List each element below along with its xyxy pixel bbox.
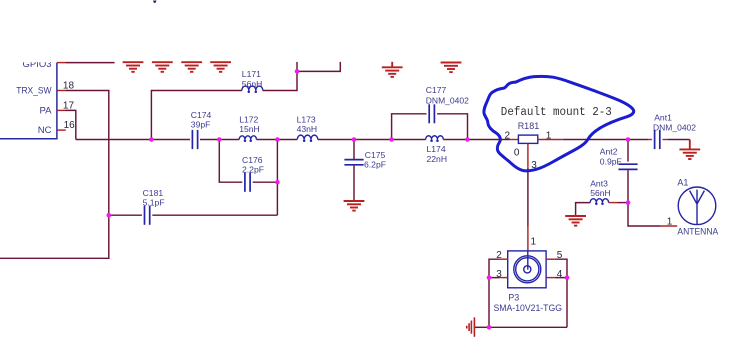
pin stub P3 pin5 [546, 258, 555, 260]
svg-text:39pF: 39pF [191, 120, 211, 130]
capacitor Ant1 (DNM) [655, 130, 660, 149]
wire bus L173 to L174 [318, 139, 426, 141]
svg-text:56nH: 56nH [242, 79, 263, 89]
wire C177 loop right [437, 114, 467, 140]
wire ground rail bottom [489, 326, 567, 328]
junction at L171 branch corner [295, 69, 300, 74]
svg-text:C177: C177 [426, 85, 447, 95]
svg-text:DNM_0402: DNM_0402 [653, 123, 696, 133]
pin stub antenna pin 1 [660, 225, 677, 227]
junction bus / L171 branch [149, 137, 154, 142]
wire P3 right loop [555, 259, 567, 277]
junction bus / C176 right [275, 137, 280, 142]
IC pin name GPIO3 (top-clipped) [22, 59, 51, 70]
pin stub R181 pin2 [510, 139, 519, 141]
pin stub NC (16, unconnected) [57, 129, 66, 131]
pin stub P3 pin3 [499, 277, 508, 279]
wire R181 pin3 to P3 pin1 [527, 168, 529, 226]
svg-text:1: 1 [667, 217, 673, 228]
svg-text:Ant3: Ant3 [590, 178, 608, 188]
junction bus / C175 [352, 137, 357, 142]
junction Ant2 / Ant3 / feed [626, 200, 631, 205]
wire C181 right segment [152, 214, 277, 216]
wire TRX_SW net to off-page left [0, 91, 109, 259]
svg-text:SMA-10V21-TGG: SMA-10V21-TGG [494, 303, 563, 313]
wire P3 left loop [489, 259, 499, 277]
wire vertical through C176/C181 junctions [276, 140, 278, 216]
ground symbol 2 (floating) [152, 62, 173, 72]
ground below C175 [344, 201, 365, 211]
inductor L174 [426, 136, 444, 140]
wire C176 left leg [219, 140, 242, 183]
wire L171 to corner up [263, 71, 297, 90]
connector P3 body [508, 251, 546, 288]
ground below Ant3 [565, 216, 586, 226]
wire C175 upper leg [353, 140, 355, 160]
junction C176 / C181 riser [275, 180, 280, 185]
svg-text:PA: PA [40, 106, 53, 117]
wire P3 right down to ground rail [566, 278, 568, 328]
svg-text:56nH: 56nH [590, 188, 611, 198]
svg-text:L173: L173 [297, 114, 316, 124]
wire C176 right leg [253, 181, 278, 183]
svg-text:1: 1 [531, 236, 537, 247]
junction P3 pin3 loop [487, 275, 492, 280]
pin stub Ant1 left [648, 139, 652, 141]
svg-text:C181: C181 [143, 188, 164, 198]
junction bus / C177 left [389, 137, 394, 142]
wire bus L174 to R181 [443, 139, 509, 141]
pin stub Ant1 right [663, 139, 669, 141]
pin stub GPIO3 [57, 62, 66, 64]
wire P3 left down to ground rail [488, 278, 490, 328]
svg-text:Default mount 2-3: Default mount 2-3 [501, 106, 612, 119]
ground symbol floating (right of C177) [441, 63, 462, 73]
wire bus L172 to L173 [257, 139, 298, 141]
wire Ant3 to junction [618, 202, 629, 204]
junction ground rail [487, 325, 492, 330]
svg-text:ANTENNA: ANTENNA [677, 227, 718, 238]
wire bus C174 to L172 [200, 139, 239, 141]
wire PA pin to main bus [66, 110, 76, 139]
pin stub Ant3 right [609, 202, 618, 204]
ground right of Ant1 [679, 140, 700, 160]
pin stub PA (17) [57, 109, 66, 111]
inductor L172 [239, 136, 256, 140]
svg-text:6.2pF: 6.2pF [364, 160, 386, 170]
wire bus junction up to L171 row [151, 91, 241, 140]
ground left of P3 rail (rotated) [467, 317, 475, 336]
capacitor Ant2 [618, 164, 637, 169]
wire R181 pin1 to antenna junction [563, 139, 628, 141]
svg-text:NC: NC [38, 125, 52, 136]
antenna A1 symbol [678, 187, 716, 225]
wire GPIO3 net (dangling) [66, 62, 115, 64]
svg-text:R181: R181 [518, 121, 540, 131]
pin stub R181 pin3 down [527, 143, 529, 167]
svg-text:C174: C174 [191, 110, 212, 120]
wire to left ground [474, 326, 489, 328]
svg-text:2.2pF: 2.2pF [242, 164, 264, 174]
pin stub R181 pin1 [538, 139, 563, 141]
ground symbol 3 (floating) [181, 62, 202, 72]
wire junction to Ant1 [628, 139, 648, 141]
junction bus / C176 left [217, 137, 222, 142]
junction P3 pin4 loop [565, 275, 570, 280]
wire C181 left segment from TRX_SW line [109, 214, 142, 216]
wire right with dangling stub [297, 62, 340, 72]
svg-text:0: 0 [514, 148, 520, 159]
resistor R181 body [518, 135, 537, 143]
svg-text:DNM_0402: DNM_0402 [426, 95, 469, 105]
pin stub TRX_SW (18) [57, 90, 66, 92]
capacitor C176 [245, 173, 250, 192]
junction TRX_SW / C181 [107, 213, 112, 218]
pin stub P3 pin4 [546, 277, 555, 279]
svg-text:L171: L171 [242, 69, 261, 79]
junction bus / C177 right [465, 137, 470, 142]
svg-text:2: 2 [505, 130, 511, 141]
svg-text:4: 4 [557, 269, 563, 280]
capacitor C174 [192, 130, 197, 149]
svg-text:TRX_SW: TRX_SW [16, 86, 51, 97]
IC U1 outline (right edge and bottom edge, clipped at image left) [0, 63, 57, 139]
svg-text:22nH: 22nH [427, 154, 448, 164]
svg-text:L172: L172 [239, 114, 258, 124]
pin stub P3 pin1 up [527, 226, 529, 251]
svg-text:0.9pF: 0.9pF [600, 156, 622, 166]
svg-text:3: 3 [496, 269, 502, 280]
svg-text:C176: C176 [242, 155, 263, 165]
svg-text:P3: P3 [508, 293, 519, 303]
svg-text:5.1pF: 5.1pF [143, 198, 165, 208]
svg-text:Ant2: Ant2 [600, 147, 618, 157]
svg-text:Ant1: Ant1 [654, 112, 672, 122]
svg-text:15nH: 15nH [239, 124, 260, 134]
ground symbol 4 (floating) [210, 62, 231, 72]
wire C175 lower leg [353, 166, 355, 201]
wire antenna feed [628, 203, 660, 226]
svg-text:A1: A1 [677, 178, 688, 188]
wire C177 loop left [392, 114, 427, 140]
annotation blob (freehand circle around R181 / Default mount 2-3) [484, 76, 634, 170]
wire Ant1 to ground [668, 139, 690, 141]
inductor Ant3 [590, 199, 608, 203]
svg-text:43nH: 43nH [297, 124, 318, 134]
pin stub P3 pin2 [499, 258, 508, 260]
wire main bus segment PA corner to C174 [76, 139, 190, 141]
inductor L173 [297, 135, 318, 139]
ground symbol with stem (left of C177) [382, 62, 403, 77]
junction bus / antenna branch [626, 137, 631, 142]
inductor L171 [242, 86, 263, 90]
capacitor C177 (DNM) [429, 104, 434, 123]
svg-text:C175: C175 [365, 150, 386, 160]
capacitor C181 [145, 206, 150, 225]
stray mark (top of image) [153, 1, 157, 4]
capacitor C175 [344, 160, 363, 165]
svg-text:L174: L174 [427, 144, 446, 154]
ground symbol 1 (floating) [123, 62, 144, 72]
wire Ant2 lower leg [627, 170, 629, 202]
wire Ant2 upper leg [627, 140, 629, 162]
wire Ant3 ground leg [576, 203, 591, 216]
wire stub up from junction [296, 62, 298, 72]
